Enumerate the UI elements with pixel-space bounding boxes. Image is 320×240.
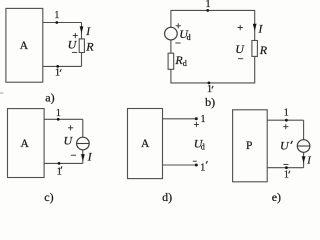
- svg-text:1: 1: [284, 108, 289, 119]
- svg-text:c): c): [44, 190, 53, 204]
- svg-text:R: R: [85, 40, 94, 54]
- svg-text:P: P: [246, 140, 252, 152]
- svg-text:1: 1: [207, 84, 212, 95]
- svg-text:1: 1: [201, 114, 206, 125]
- svg-text:I: I: [87, 152, 93, 164]
- svg-text:I: I: [306, 156, 311, 167]
- svg-text:A: A: [141, 138, 150, 150]
- svg-text:U: U: [68, 38, 78, 52]
- svg-text:a): a): [45, 90, 54, 104]
- svg-text:1: 1: [200, 163, 205, 174]
- svg-text:d: d: [187, 33, 191, 42]
- svg-text:U: U: [280, 139, 290, 153]
- svg-text:I: I: [85, 26, 91, 38]
- svg-text:I: I: [258, 24, 264, 36]
- svg-text:1: 1: [56, 108, 61, 119]
- svg-text:d: d: [183, 59, 187, 68]
- svg-text:U: U: [64, 134, 74, 148]
- svg-text:d: d: [201, 143, 205, 152]
- svg-text:U: U: [235, 42, 245, 56]
- svg-text:R: R: [259, 43, 268, 57]
- svg-text:b): b): [205, 95, 215, 109]
- svg-text:1: 1: [284, 170, 289, 181]
- svg-text:A: A: [20, 40, 29, 52]
- svg-text:1: 1: [206, 0, 211, 10]
- svg-text:A: A: [20, 138, 29, 150]
- svg-text:1: 1: [54, 10, 59, 21]
- svg-text:e): e): [272, 190, 281, 204]
- svg-text:d): d): [162, 190, 172, 204]
- svg-text:1: 1: [55, 68, 60, 79]
